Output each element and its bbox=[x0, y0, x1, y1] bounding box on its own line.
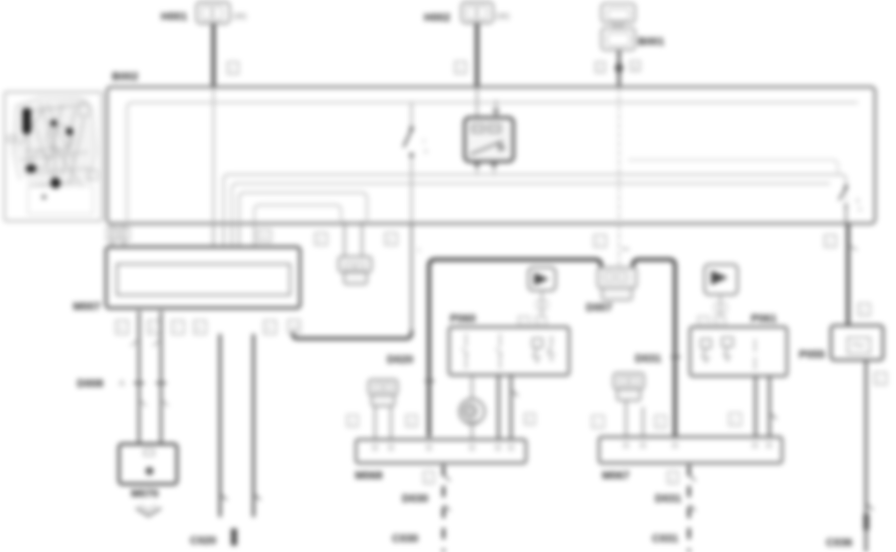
pin squares above M067 bbox=[592, 416, 604, 429]
wires P060 to M068 bbox=[497, 375, 500, 440]
wire B001 to D007 bbox=[618, 224, 620, 268]
svg-text:a: a bbox=[424, 148, 428, 155]
pin 1 of H002 wire bbox=[455, 62, 466, 74]
switch P061 bbox=[690, 313, 787, 376]
wire below M068 bbox=[442, 465, 445, 552]
svg-text:1: 1 bbox=[231, 66, 235, 73]
pin squares above M007 bbox=[107, 228, 118, 241]
wires plug B to M068 bbox=[374, 406, 376, 440]
svg-text:8: 8 bbox=[856, 198, 860, 205]
earth bus wire right branch bbox=[633, 260, 675, 437]
svg-text:2: 2 bbox=[409, 419, 413, 426]
svg-text:A: A bbox=[119, 378, 125, 388]
svg-text:B001: B001 bbox=[638, 36, 664, 48]
switch S1 in B002 bbox=[404, 103, 429, 223]
ground symbol under M070 bbox=[136, 505, 161, 516]
svg-text:M068: M068 bbox=[355, 470, 383, 482]
svg-text:D007: D007 bbox=[586, 302, 612, 314]
connector D031 crossing bbox=[671, 356, 680, 358]
wire H001 inside box bbox=[213, 87, 215, 222]
faint relay feed line bbox=[628, 160, 838, 174]
wires plug C to M067 bbox=[625, 401, 627, 438]
svg-text:2: 2 bbox=[658, 420, 662, 427]
earth point M067 bbox=[599, 437, 782, 482]
svg-text:1: 1 bbox=[670, 476, 674, 483]
wires B002 to connector A bbox=[344, 221, 346, 257]
pin square left of P061 wires bbox=[729, 413, 741, 426]
svg-text:1: 1 bbox=[732, 418, 736, 425]
svg-text:a: a bbox=[858, 206, 862, 213]
svg-text:4: 4 bbox=[388, 237, 392, 244]
svg-text:1: 1 bbox=[597, 239, 601, 246]
earth point M068 bbox=[355, 440, 526, 483]
svg-text:10: 10 bbox=[291, 325, 299, 332]
wire M007 to C020 pin A bbox=[219, 334, 222, 517]
switch S2 right in B002 bbox=[839, 185, 862, 224]
wires B002 to M007 bbox=[111, 222, 113, 247]
svg-text:1: 1 bbox=[417, 247, 421, 254]
switch P060 bbox=[449, 313, 569, 375]
earth bus wire left branch bbox=[429, 260, 601, 438]
bus line L4 bbox=[254, 205, 341, 221]
svg-text:D020: D020 bbox=[387, 354, 413, 366]
wire H002 to B002 bbox=[475, 23, 479, 87]
pin squares above M068 bbox=[347, 415, 358, 427]
pin square above D007 bbox=[594, 235, 606, 247]
pin squares above P061 bbox=[698, 317, 709, 328]
inner bus line top bbox=[127, 103, 858, 222]
svg-text:6: 6 bbox=[151, 326, 155, 333]
svg-text:H001: H001 bbox=[161, 11, 187, 23]
pin 1 of H001 wire bbox=[228, 62, 239, 74]
C020 crossing ticks bbox=[220, 494, 227, 500]
svg-text:7: 7 bbox=[175, 326, 179, 333]
svg-text:D031: D031 bbox=[655, 493, 681, 505]
svg-text:C036: C036 bbox=[826, 537, 852, 549]
svg-text:1: 1 bbox=[458, 66, 462, 73]
pin squares below M007 bbox=[116, 321, 128, 335]
wire P055 to C036 bbox=[865, 360, 868, 552]
ECU box M007 bbox=[73, 247, 300, 313]
relay U1 in B002 bbox=[465, 100, 514, 175]
svg-text:C020: C020 bbox=[190, 535, 216, 547]
svg-text:8: 8 bbox=[197, 326, 201, 333]
svg-text:M067: M067 bbox=[602, 470, 630, 482]
svg-text:C031: C031 bbox=[652, 533, 678, 545]
pin squares at B001 wire bbox=[596, 62, 606, 73]
dashed wire B001 through box bbox=[618, 87, 620, 224]
svg-text:1: 1 bbox=[862, 308, 866, 315]
svg-text:B002: B002 bbox=[112, 71, 138, 83]
svg-text:P060: P060 bbox=[450, 313, 476, 325]
svg-text:(W): (W) bbox=[496, 11, 510, 21]
wire B001 down bbox=[618, 50, 621, 87]
svg-text:2: 2 bbox=[527, 417, 531, 424]
svg-text:H002: H002 bbox=[424, 12, 450, 24]
junction mark on B001 wire bbox=[615, 60, 624, 76]
svg-text:3: 3 bbox=[318, 237, 322, 244]
svg-text:1: 1 bbox=[828, 239, 832, 246]
wire H002 to relay bbox=[476, 87, 478, 118]
switch feed arrow P060 bbox=[529, 268, 556, 328]
connector D020 crossing bbox=[425, 380, 434, 382]
wire ticks below D008 bbox=[139, 399, 146, 406]
wire M007 to C020 pin B bbox=[252, 334, 255, 517]
connector H001 bbox=[161, 2, 247, 24]
svg-text:M070: M070 bbox=[131, 488, 159, 500]
svg-text:1: 1 bbox=[878, 377, 882, 384]
svg-text:P061: P061 bbox=[751, 313, 777, 325]
wire M007 pin 10 to B002 node bbox=[292, 331, 294, 334]
svg-text:1: 1 bbox=[595, 420, 599, 427]
svg-text:7: 7 bbox=[422, 139, 426, 146]
pin square right of P060 wires bbox=[525, 414, 536, 425]
svg-text:1: 1 bbox=[426, 476, 430, 483]
wires P061 to M067 bbox=[754, 376, 757, 437]
svg-text:D031: D031 bbox=[635, 353, 661, 365]
connector C plug above M067 bbox=[614, 373, 645, 401]
wire M007 to M070 pin A bbox=[138, 311, 141, 444]
connector D008 crossing bbox=[134, 382, 144, 384]
wire B002 to P055 bbox=[846, 224, 850, 326]
bus line L2b bbox=[232, 184, 830, 222]
connector A plug bbox=[339, 257, 372, 285]
switch feed arrow P061 bbox=[705, 265, 738, 328]
svg-text:C030: C030 bbox=[392, 533, 418, 545]
wire color ticks bbox=[131, 339, 139, 346]
bus line L2 bbox=[224, 175, 847, 222]
svg-text:D030: D030 bbox=[402, 493, 428, 505]
svg-text:a: a bbox=[633, 64, 637, 71]
connector H002 bbox=[424, 2, 510, 24]
wire H001 to B002 bbox=[212, 24, 216, 88]
wire below M067 bbox=[688, 465, 691, 552]
svg-text:9: 9 bbox=[267, 326, 271, 333]
battery connector B001 bbox=[602, 4, 665, 51]
component pictogram box bbox=[5, 92, 103, 221]
svg-text:(W): (W) bbox=[233, 11, 247, 21]
washer pump motor bbox=[460, 375, 485, 440]
motor M070 bbox=[119, 444, 177, 500]
fuse box B002 outline bbox=[107, 87, 875, 224]
connector B plug above M068 bbox=[369, 380, 398, 407]
svg-text:12: 12 bbox=[261, 234, 269, 241]
svg-text:1: 1 bbox=[350, 419, 354, 426]
svg-text:5: 5 bbox=[119, 326, 123, 333]
heater P055 bbox=[799, 326, 883, 362]
connector D007 plug bbox=[586, 268, 637, 315]
bus line L3 bbox=[239, 193, 367, 221]
wire M007 to M070 pin B bbox=[160, 311, 163, 444]
svg-text:D008: D008 bbox=[77, 378, 103, 390]
pin squares above P060 bbox=[519, 317, 530, 328]
svg-text:M007: M007 bbox=[73, 301, 101, 313]
svg-text:P055: P055 bbox=[799, 349, 825, 361]
svg-text:1: 1 bbox=[598, 65, 602, 72]
